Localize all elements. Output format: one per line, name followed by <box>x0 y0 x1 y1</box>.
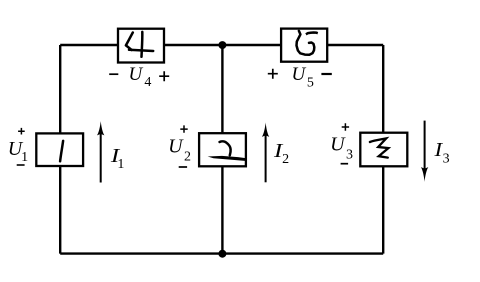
svg-text:1: 1 <box>21 150 28 165</box>
svg-text:1: 1 <box>117 157 124 172</box>
svg-text:2: 2 <box>184 150 191 165</box>
svg-text:4: 4 <box>144 75 151 90</box>
svg-text:U: U <box>330 134 346 156</box>
svg-text:U: U <box>168 136 184 158</box>
svg-text:5: 5 <box>307 76 314 91</box>
svg-text:U: U <box>129 64 144 85</box>
svg-text:U: U <box>292 64 307 85</box>
svg-text:3: 3 <box>346 147 353 162</box>
svg-text:3: 3 <box>443 152 450 167</box>
svg-text:2: 2 <box>282 152 289 167</box>
